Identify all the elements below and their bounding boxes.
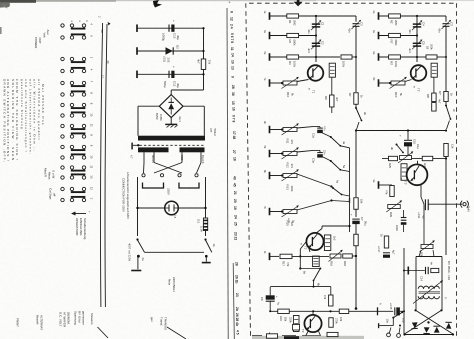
svg-text:47k: 47k [290, 164, 294, 169]
input terminal R12 [269, 150, 271, 158]
switch contact row 15 [61, 187, 64, 190]
svg-text:43n: 43n [348, 28, 352, 33]
svg-text:20: 20 [233, 199, 237, 203]
switch mains pole B [204, 238, 206, 240]
wire rail A upper [355, 16, 357, 22]
contact box K1' [431, 63, 437, 77]
wire terminals [389, 328, 391, 334]
svg-text:3b: 3b [390, 147, 394, 150]
potentiometer R15 [283, 210, 297, 214]
svg-text:4 5: 4 5 [236, 330, 240, 335]
terminal strip rule line [227, 8, 228, 339]
switch 2c [445, 102, 447, 105]
svg-text:1000µ: 1000µ [162, 33, 166, 41]
potentiometer R10 [283, 81, 297, 85]
svg-text:+C15: +C15 [389, 303, 393, 310]
wire input 2 [270, 35, 316, 37]
wire osc loop top [415, 257, 417, 263]
svg-text:40µ: 40µ [176, 35, 180, 40]
svg-text:233: 233 [167, 58, 171, 63]
switch contact row 4 [61, 69, 64, 72]
switch mains pole A [136, 238, 138, 240]
node input3/bus [315, 56, 317, 58]
diode GR1 [412, 322, 418, 328]
switch contact row 1 [61, 24, 64, 27]
switch contact row 14 [61, 176, 64, 179]
svg-text:+C9: +C9 [287, 218, 291, 223]
svg-text:25: 25 [233, 222, 237, 226]
svg-text:R16: R16 [330, 261, 334, 266]
svg-text:36: 36 [231, 92, 235, 96]
resistor bottom B [327, 332, 338, 336]
svg-text:14: 14 [230, 53, 234, 57]
scan noise top edge [0, 0, 36, 3]
wire collector rail channel1 [349, 148, 351, 232]
svg-text:CONNECTION FOR 220V: CONNECTION FOR 220V [122, 178, 126, 212]
svg-text:C1: C1 [321, 22, 325, 26]
svg-text:TRANSIS: TRANSIS [164, 317, 168, 330]
svg-text:2b: 2b [235, 307, 239, 311]
svg-text:220V: 220V [167, 188, 171, 195]
svg-text:C12: C12 [173, 81, 177, 87]
resistor R7' on rail [444, 92, 448, 102]
input terminal lower [269, 253, 271, 261]
switch 3b [396, 144, 398, 146]
svg-text:21: 21 [233, 191, 237, 195]
resistor R1 [287, 14, 299, 18]
wire T2 emitter row [309, 248, 311, 253]
svg-text:R8: R8 [324, 96, 328, 100]
transistor T1' [411, 65, 427, 81]
switch contact row 6 [61, 93, 64, 96]
svg-text:1k2: 1k2 [333, 236, 337, 241]
transformer TR1 primary bar [138, 136, 205, 141]
node input1R/bus [416, 15, 418, 17]
svg-text:R19: R19 [348, 198, 352, 203]
oscillator transformer Tr2 [418, 286, 423, 289]
wire pot R10' to T1' [405, 80, 412, 82]
diode GR3 [434, 327, 440, 333]
switch contact row 5 [61, 81, 64, 84]
diode GR2 [424, 327, 430, 333]
input terminal R13 [269, 172, 271, 180]
svg-text:C10: C10 [413, 139, 417, 144]
switch contact row 7 [61, 103, 64, 106]
svg-text:47k: 47k [286, 262, 290, 267]
svg-text:POWER: POWER [34, 37, 38, 49]
svg-text:10a: 10a [386, 319, 390, 324]
potentiometer R13 [283, 174, 297, 178]
svg-text:100k: 100k [394, 61, 398, 68]
contact box K3 [293, 316, 299, 332]
wire rail B upper [445, 16, 447, 22]
svg-text:200k: 200k [430, 44, 434, 50]
scan mark top-left [2, 4, 7, 7]
svg-text:28: 28 [231, 85, 235, 89]
capacitor C17 [383, 252, 390, 254]
diode ring wires [416, 310, 454, 334]
wire switch feed [378, 323, 380, 328]
svg-text:R25: R25 [388, 163, 392, 168]
svg-text:Bestell-: Bestell- [36, 315, 40, 325]
arrow marker top [297, 0, 300, 2]
input terminal 4 [269, 79, 271, 87]
transformer core dashes [140, 144, 205, 146]
svg-text:Med.R: Med.R [44, 168, 48, 178]
svg-text:2a: 2a [141, 258, 145, 262]
svg-text:+: + [399, 135, 403, 137]
input terminal 3 [269, 53, 271, 61]
svg-text:C4: C4 [422, 22, 426, 26]
transistor T3 [304, 315, 321, 332]
svg-text:17 48: 17 48 [232, 131, 236, 139]
svg-text:C5: C5 [422, 41, 426, 45]
svg-text:11: 11 [230, 47, 234, 51]
svg-text:R2: R2 [288, 40, 292, 44]
transistor T1 [308, 65, 324, 81]
svg-text:Aux: Aux [46, 30, 50, 36]
svg-text:26 2b: 26 2b [234, 275, 238, 283]
terminal strip rule line 2 [233, 263, 234, 339]
svg-text:10b: 10b [402, 318, 406, 323]
resistor R2' [389, 33, 401, 37]
wire pot R11 out [297, 127, 313, 128]
scan mark left edge [0, 27, 2, 34]
switch contact row 3 [61, 57, 64, 60]
svg-text:100n: 100n [395, 225, 399, 231]
wire osc left rail [403, 248, 405, 335]
svg-text:R17: R17 [282, 261, 286, 266]
node input3R/bus [416, 56, 418, 58]
svg-text:270k: 270k [335, 318, 339, 324]
svg-text:R8': R8' [426, 94, 430, 98]
resistor R7 on rail [354, 93, 358, 105]
svg-text:C3': C3' [450, 22, 454, 27]
svg-text:40: 40 [233, 176, 237, 180]
svg-text:100k: 100k [293, 61, 297, 68]
svg-text:680k: 680k [293, 40, 297, 47]
svg-text:R11: R11 [286, 139, 290, 144]
svg-text:R10': R10' [394, 92, 398, 98]
switch contact row 10 [61, 135, 64, 138]
svg-text:R3: R3 [288, 61, 292, 65]
svg-text:4.7: 4.7 [130, 155, 134, 159]
switch 2b rail [355, 104, 357, 107]
svg-text:47k: 47k [290, 140, 294, 145]
diode D1 [166, 47, 173, 54]
svg-text:23 21: 23 21 [234, 232, 238, 240]
svg-text:+C17: +C17 [377, 246, 381, 253]
wire osc cap row [404, 270, 425, 272]
svg-text:5a: 5a [342, 165, 346, 169]
wire mid column [403, 210, 405, 218]
svg-text:C7: C7 [360, 217, 364, 221]
wire T2' emitter to output [420, 184, 422, 197]
capacitor C7 SE [352, 218, 359, 220]
svg-text:680k: 680k [394, 40, 398, 47]
svg-text:500µ: 500µ [163, 81, 167, 88]
svg-text:12: 12 [230, 17, 234, 21]
svg-text:24: 24 [233, 215, 237, 219]
terminal circle m [387, 333, 391, 337]
transformer TR1 secondary bar A [138, 147, 169, 152]
svg-text:11: 11 [90, 165, 94, 168]
svg-text:R29: R29 [389, 212, 393, 217]
node bus top [108, 22, 111, 26]
svg-text:A: A [379, 303, 383, 305]
voltage selector link A [143, 183, 164, 189]
terminal circle n [397, 334, 401, 338]
svg-text:Met 250VAC Pos: Met 250VAC Pos [41, 84, 45, 126]
capacitor C12 500u branch wire [136, 71, 138, 79]
svg-text:47n: 47n [323, 126, 327, 131]
wire T2 collector [316, 229, 322, 234]
svg-text:504/2: 504/2 [213, 129, 217, 137]
node rail/supply [355, 129, 357, 131]
wire to output jack [428, 203, 462, 205]
svg-text:10: 10 [90, 155, 94, 159]
wire T3 legs [304, 331, 309, 339]
potentiometer R12 [283, 152, 297, 156]
wire node to collector rail [332, 201, 350, 202]
wire input 1 [270, 15, 356, 17]
svg-text:off: off [53, 193, 57, 196]
fuse Si1 [203, 218, 207, 231]
svg-text:2µ: 2µ [292, 220, 296, 223]
input terminal 2 [269, 32, 271, 40]
svg-text:13: 13 [90, 175, 94, 179]
resistor R25 [389, 156, 398, 160]
svg-text:4n3: 4n3 [307, 48, 311, 53]
svg-text:4k7: 4k7 [438, 99, 442, 104]
output jack BU2 [463, 203, 466, 206]
svg-text:12: 12 [90, 187, 94, 191]
trimmer capacitor C2 [312, 42, 320, 44]
svg-text:C350: C350 [159, 114, 163, 121]
svg-text:6a: 6a [336, 180, 340, 184]
svg-text:1B: 1B [426, 46, 430, 49]
svg-text:OUT: OUT [38, 38, 42, 45]
svg-text:R1: R1 [288, 20, 292, 24]
svg-text:GL1: GL1 [178, 117, 182, 123]
svg-text:R7': R7' [438, 91, 442, 95]
svg-text:PRINT: PRINT [16, 318, 20, 327]
resistor R21 [329, 295, 333, 306]
svg-text:Transf.: Transf. [160, 317, 164, 326]
switch gang bar [145, 251, 205, 253]
svg-text:45: 45 [233, 183, 237, 187]
svg-text:OPERATION: OPERATION [75, 218, 79, 235]
frame dashed top [249, 2, 455, 4]
svg-text:100k: 100k [342, 61, 346, 68]
resistor R28 [390, 186, 394, 197]
frame dashed right [456, 3, 458, 339]
svg-text:S o W: S o W [52, 170, 56, 178]
svg-text:4µ: 4µ [277, 302, 281, 305]
svg-text:27: 27 [232, 150, 236, 154]
node rail B supply [445, 129, 447, 131]
svg-text:26 28 4b: 26 28 4b [235, 313, 239, 326]
potentiometer R29 [388, 205, 401, 209]
svg-text:T3: T3 [301, 329, 305, 333]
input terminal R15 [269, 208, 271, 216]
svg-text:FROM THE SOLDERING SIDE !: FROM THE SOLDERING SIDE ! [15, 79, 19, 161]
svg-text:Volt: Volt [43, 33, 47, 38]
svg-text:C8: C8 [260, 297, 264, 301]
oscillator tuning arrow [413, 282, 442, 304]
node input1/bus [315, 15, 317, 17]
resistor R19 on rail [354, 198, 358, 210]
svg-text:und alle Schalterstellungen !: und alle Schalterstellungen ! [24, 79, 28, 153]
input terminal 2R [378, 32, 380, 40]
svg-text:19: 19 [233, 206, 237, 210]
svg-text:C14: C14 [420, 276, 424, 281]
wire base branch down [299, 256, 301, 268]
resistor R27 [422, 156, 433, 160]
svg-text:AT WAFER: AT WAFER [63, 312, 67, 328]
svg-text:BY IS fol: BY IS fol [78, 311, 82, 323]
svg-text:ALTERNAT: ALTERNAT [40, 315, 44, 330]
svg-text:18: 18 [232, 157, 236, 161]
svg-text:r: r [88, 212, 92, 213]
capacitor C15 [394, 307, 396, 315]
wire output to oscillator [423, 204, 425, 244]
svg-text:1W: 1W [208, 60, 212, 65]
svg-text:16µ: 16µ [416, 144, 420, 149]
wire input3 to rail resistor [316, 56, 340, 58]
svg-text:T2: T2 [304, 246, 308, 250]
svg-text:D2: D2 [176, 45, 180, 49]
switch contact row 8 [61, 114, 64, 117]
svg-text:R18: R18 [343, 261, 347, 266]
resistor R18 [343, 254, 353, 258]
ground osc [407, 267, 409, 275]
wire supply row lower [270, 310, 393, 312]
wire input 1R [379, 15, 446, 17]
ground bridge [170, 118, 172, 124]
svg-text:43n: 43n [307, 29, 311, 34]
svg-text:R3': R3' [390, 61, 394, 66]
wire bottom row [252, 335, 262, 337]
input terminal R11 [269, 126, 271, 134]
resistor R20 on rail [354, 234, 358, 246]
wire supply row [356, 130, 446, 132]
switch pole B contact [205, 255, 208, 258]
resistor R17 [280, 254, 292, 258]
resistor R19b [278, 309, 290, 313]
terminal circles voltage taps [142, 174, 145, 177]
wire T2' collector [417, 161, 419, 164]
svg-text:Cal Sign: Cal Sign [49, 188, 53, 200]
switch 10a [392, 317, 394, 319]
switch contact row 9 [61, 124, 64, 127]
wire pot R15 to node [297, 201, 332, 211]
resistor R3' [389, 55, 401, 59]
svg-text:23: 23 [235, 293, 239, 297]
svg-text:T1': T1' [417, 88, 421, 92]
potentiometer R30 [421, 245, 433, 249]
input terminal 1 [269, 12, 271, 20]
svg-text:La: La [174, 215, 178, 219]
svg-text:20: 20 [106, 61, 110, 65]
switch contact row 12 [61, 156, 64, 159]
svg-text:5 6 7 8: 5 6 7 8 [230, 33, 234, 43]
wire T2 base [300, 242, 306, 250]
svg-text:28: 28 [234, 262, 238, 266]
resistor R14 box [324, 235, 330, 251]
switch 5a [322, 157, 331, 161]
scan shadow bottom [252, 336, 364, 339]
potentiometer R16 [330, 254, 341, 258]
svg-text:9: 9 [231, 76, 235, 78]
capacitor C12' output [424, 199, 426, 210]
svg-text:4k7: 4k7 [197, 59, 201, 64]
node input2R/bus [416, 34, 418, 36]
svg-text:4µ7: 4µ7 [422, 215, 426, 220]
resistor R33 [431, 268, 439, 272]
svg-text:C2a: C2a [312, 133, 316, 138]
svg-text:SOLDERING TAG VIEW · SEEN: SOLDERING TAG VIEW · SEEN [11, 79, 15, 162]
trimmer capacitor C4 [413, 23, 421, 25]
svg-text:0,1A: 0,1A [200, 226, 204, 232]
lamp La [165, 201, 179, 215]
capacitor C3a [317, 152, 323, 154]
svg-text:(S1): (S1) [163, 57, 167, 62]
wire tap crossing [154, 163, 182, 174]
svg-text:220k: 220k [289, 317, 293, 323]
svg-text:12k: 12k [451, 144, 455, 149]
wire input 4 [270, 82, 282, 84]
svg-text:R19: R19 [279, 316, 283, 321]
transistor T2 [306, 233, 323, 250]
svg-text:2M2: 2M2 [293, 20, 297, 26]
wire mains bus 12 [105, 24, 107, 307]
capacitor C13' stack [401, 217, 407, 219]
svg-text:gezeichnete Stellung: gezeichnete Stellung [20, 79, 24, 130]
wire bridge left [138, 105, 159, 107]
wire emitter row channel2 [382, 158, 389, 160]
capacitor C13 1000u [168, 25, 170, 32]
svg-text:Tr: Tr [444, 297, 448, 300]
svg-text:+: + [350, 214, 354, 216]
svg-text:AND ALTERNATING POSITIONS !: AND ALTERNATING POSITIONS ! [6, 79, 10, 162]
diode GR4 [446, 323, 452, 329]
svg-text:100k: 100k [290, 186, 294, 193]
svg-text:(B)/NOM.: (B)/NOM. [67, 312, 71, 325]
resistor R3 [287, 55, 299, 59]
switch pole A contact [137, 255, 140, 258]
svg-text:43n: 43n [408, 29, 412, 34]
svg-text:R13: R13 [286, 185, 290, 191]
component box bottom [293, 325, 300, 331]
svg-text:13: 13 [231, 66, 235, 70]
switch contact row 2 [61, 36, 64, 39]
wire bus channel 1 [315, 16, 317, 62]
svg-text:22n: 22n [323, 150, 327, 155]
trimmer capacitor C5 [413, 42, 421, 44]
resistor R24 on rail B [444, 144, 448, 157]
svg-text:8b: 8b [317, 283, 321, 287]
capacitor C8 4u [266, 295, 275, 299]
svg-text:R1': R1' [390, 20, 394, 25]
wire 8b to lower row [313, 281, 315, 287]
svg-text:Si1: Si1 [197, 219, 201, 223]
svg-text:+: + [172, 66, 176, 68]
resistor R22 [329, 318, 333, 328]
transformer shield tag [131, 143, 133, 150]
resistor R9' emitter [432, 103, 436, 112]
svg-text:C2: C2 [321, 41, 325, 45]
